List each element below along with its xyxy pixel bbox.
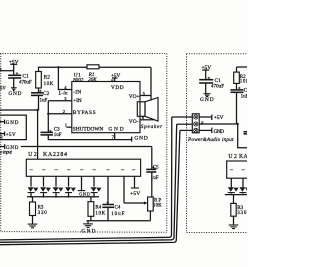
svg-text:10K: 10K	[240, 80, 247, 85]
svg-text:U2: U2	[28, 152, 37, 158]
svg-text:GND: GND	[81, 229, 95, 234]
svg-text:470uF: 470uF	[211, 85, 224, 90]
svg-text:330: 330	[237, 211, 247, 216]
svg-text:C2: C2	[43, 91, 50, 97]
svg-text:VO-: VO-	[129, 119, 139, 125]
svg-text:Speaker: Speaker	[141, 124, 163, 130]
svg-text:R: R	[200, 120, 204, 125]
svg-text:GND: GND	[8, 91, 21, 97]
svg-text:R4: R4	[95, 205, 101, 210]
svg-text:5V: 5V	[0, 86, 6, 91]
svg-text:+IN: +IN	[73, 98, 82, 104]
svg-text:1uF: 1uF	[54, 133, 62, 138]
svg-text:C1: C1	[215, 78, 222, 84]
svg-text:SHUTDOWN: SHUTDOWN	[73, 126, 104, 132]
svg-text:GND: GND	[214, 129, 224, 135]
svg-text:10K: 10K	[95, 211, 105, 216]
svg-text:C2: C2	[244, 89, 247, 94]
svg-text:10K: 10K	[153, 204, 162, 209]
svg-text:330: 330	[38, 211, 48, 216]
svg-text:+5V: +5V	[214, 115, 224, 121]
svg-text:20K: 20K	[88, 78, 97, 83]
svg-text:-IN: -IN	[73, 89, 81, 95]
svg-text:o input: o input	[0, 150, 12, 155]
svg-text:C5: C5	[153, 166, 159, 171]
svg-text:U2: U2	[228, 154, 237, 160]
svg-text:1uF: 1uF	[40, 99, 48, 104]
svg-text:U1: U1	[74, 72, 81, 78]
svg-text:10uF: 10uF	[111, 212, 124, 217]
svg-text:R: R	[0, 135, 3, 140]
svg-text:GND: GND	[200, 97, 214, 103]
svg-text:+5V: +5V	[130, 191, 140, 197]
svg-text:GND: GND	[6, 121, 19, 126]
svg-text:+5V: +5V	[202, 65, 212, 71]
svg-text:VO+: VO+	[129, 94, 140, 100]
svg-text:1uF: 1uF	[241, 94, 247, 99]
svg-text:10K: 10K	[44, 82, 54, 87]
svg-text:GND: GND	[134, 135, 147, 141]
svg-text:R2: R2	[44, 74, 51, 80]
svg-text:KA2284: KA2284	[239, 154, 247, 160]
svg-text:C1: C1	[23, 74, 30, 80]
svg-text:KA2284: KA2284	[43, 152, 67, 158]
svg-text:Power&Audio input: Power&Audio input	[187, 137, 234, 143]
svg-text:R3: R3	[38, 205, 44, 210]
svg-text:+5V: +5V	[9, 60, 19, 66]
svg-text:+5V: +5V	[6, 133, 16, 138]
svg-text:BYPASS: BYPASS	[73, 110, 96, 116]
svg-text:GND: GND	[108, 126, 123, 132]
svg-text:8002: 8002	[73, 79, 84, 84]
svg-text:GND: GND	[79, 192, 90, 197]
svg-text:VDD: VDD	[111, 85, 124, 91]
svg-text:C4: C4	[115, 205, 121, 210]
svg-text:470uF: 470uF	[19, 80, 32, 85]
svg-text:1uF: 1uF	[151, 176, 159, 181]
